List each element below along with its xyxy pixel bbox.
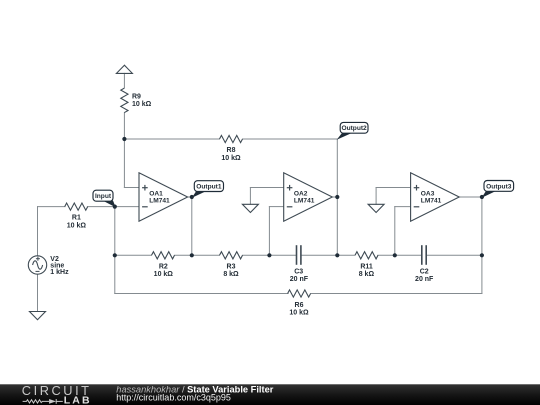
svg-text:10 kΩ: 10 kΩ — [221, 155, 241, 162]
svg-text:10 kΩ: 10 kΩ — [132, 101, 152, 108]
svg-text:R11: R11 — [360, 263, 373, 270]
svg-text:20 nF: 20 nF — [290, 276, 309, 283]
svg-text:Input: Input — [95, 193, 112, 200]
svg-text:OA3: OA3 — [421, 191, 435, 198]
svg-text:C3: C3 — [294, 269, 303, 276]
svg-text:10 kΩ: 10 kΩ — [67, 222, 87, 229]
svg-text:OA1: OA1 — [149, 191, 163, 198]
svg-text:R9: R9 — [132, 94, 141, 101]
svg-text:R2: R2 — [159, 263, 168, 270]
svg-text:Output2: Output2 — [341, 125, 367, 132]
svg-text:OA2: OA2 — [294, 191, 308, 198]
svg-text:LM741: LM741 — [149, 198, 170, 205]
svg-text:LAB: LAB — [64, 394, 92, 405]
svg-text:10 kΩ: 10 kΩ — [154, 271, 174, 278]
svg-text:R1: R1 — [72, 215, 81, 222]
svg-text:8 kΩ: 8 kΩ — [359, 271, 375, 278]
svg-text:Output3: Output3 — [486, 183, 512, 190]
svg-text:LM741: LM741 — [294, 198, 315, 205]
svg-text:10 kΩ: 10 kΩ — [289, 310, 309, 317]
svg-text:20 nF: 20 nF — [415, 276, 434, 283]
svg-text:LM741: LM741 — [421, 198, 442, 205]
svg-text:R6: R6 — [295, 302, 304, 309]
svg-text:http://circuitlab.com/c3q5p95: http://circuitlab.com/c3q5p95 — [116, 393, 231, 403]
svg-text:Output1: Output1 — [196, 184, 222, 191]
svg-text:1 kHz: 1 kHz — [50, 269, 69, 276]
svg-text:C2: C2 — [420, 269, 429, 276]
svg-text:R8: R8 — [227, 147, 236, 154]
svg-text:R3: R3 — [227, 263, 236, 270]
svg-text:8 kΩ: 8 kΩ — [223, 271, 239, 278]
